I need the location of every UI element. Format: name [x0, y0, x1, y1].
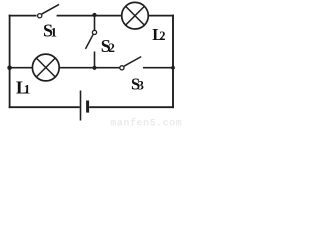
- lamp L1 cross: [36, 58, 55, 77]
- lamp L2 cross: [126, 6, 145, 25]
- label S2: [101, 36, 115, 56]
- switch S2 contact circle: [92, 30, 96, 34]
- label L2: [152, 25, 165, 44]
- lamp L1 circle: [32, 54, 59, 81]
- wire right vertical: [172, 15, 174, 109]
- wire middle segment (S3 to right wire): [143, 67, 174, 69]
- junction node right (middle wire to right wire): [171, 66, 175, 70]
- junction node top (S2 branch tap): [92, 13, 96, 17]
- label S1: [43, 21, 57, 41]
- switch S3 contact circle: [120, 66, 124, 70]
- svg-text:manfen5.com: manfen5.com: [110, 117, 182, 127]
- wire top segment (L2 to right corner): [148, 15, 174, 17]
- svg-text:3: 3: [138, 78, 144, 92]
- junction node middle (S2 to middle wire): [92, 66, 96, 70]
- switch S1 contact circle: [38, 14, 42, 18]
- wire middle segment (left to lamp L1): [10, 67, 33, 69]
- svg-text:1: 1: [51, 25, 58, 40]
- junction node left (middle wire to left wire): [7, 65, 12, 70]
- switch S3 blade: [124, 57, 141, 67]
- wire bottom segment (left corner to battery): [9, 106, 80, 108]
- wire middle segment (L1 to S3): [59, 67, 119, 69]
- label S3: [131, 74, 144, 93]
- switch S2 blade: [86, 34, 94, 49]
- svg-text:2: 2: [159, 29, 165, 43]
- lamp L2 circle: [122, 2, 149, 29]
- wire top segment (corner to S1): [9, 15, 37, 17]
- battery positive plate (long): [80, 91, 82, 121]
- wire S2 branch upper stem: [94, 16, 96, 31]
- switch S1 blade: [42, 4, 59, 14]
- wire top segment (S1 to lamp L2): [57, 15, 122, 17]
- label L1: [16, 78, 30, 98]
- wire bottom segment (battery to right corner): [89, 106, 174, 108]
- svg-text:1: 1: [24, 82, 31, 97]
- battery negative plate (short thick): [86, 101, 89, 113]
- svg-text:2: 2: [108, 40, 115, 55]
- wire left vertical: [9, 15, 11, 109]
- wire S2 branch lower stem: [94, 52, 96, 69]
